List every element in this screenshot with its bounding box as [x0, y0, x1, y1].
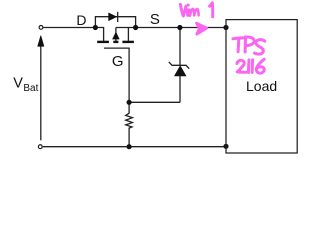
svg-text:S: S: [150, 11, 160, 28]
svg-text:D: D: [76, 12, 86, 28]
svg-text:Bat: Bat: [23, 83, 38, 94]
svg-text:V: V: [13, 76, 23, 92]
svg-text:G: G: [112, 53, 124, 70]
svg-text:Load: Load: [246, 78, 277, 94]
